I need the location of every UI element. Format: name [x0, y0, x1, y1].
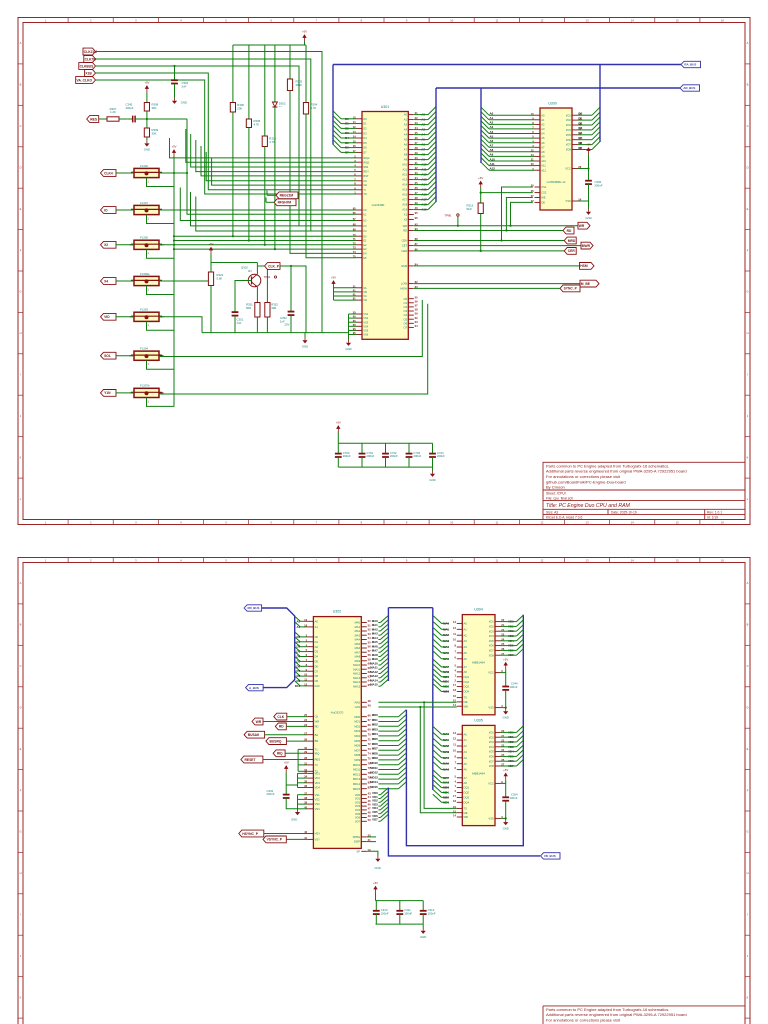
svg-text:U300: U300: [548, 102, 557, 106]
svg-text:10: 10: [450, 520, 453, 524]
svg-text:MD2: MD2: [354, 724, 360, 728]
wire RAM D: [578, 124, 593, 126]
svg-text:A7: A7: [464, 665, 468, 669]
EMI filter FL304: [130, 347, 164, 367]
wire: [290, 323, 292, 333]
bus vertical MA: [387, 608, 389, 681]
bus entry: [428, 172, 436, 180]
wire MA: [378, 656, 380, 658]
wire: [264, 45, 266, 135]
svg-text:A15: A15: [402, 188, 407, 192]
svg-text:VS1: VS1: [315, 793, 321, 797]
svg-text:I/O6: I/O6: [566, 138, 572, 142]
svg-text:T2: T2: [315, 763, 319, 767]
svg-text:I/O5: I/O5: [489, 639, 495, 643]
svg-text:H: H: [747, 331, 749, 335]
junction: [505, 707, 507, 709]
bus entry: [592, 107, 600, 115]
bus vertical D: [332, 65, 334, 145]
wire: [119, 118, 127, 120]
svg-text:13: 13: [453, 731, 456, 735]
bus entry: [295, 622, 301, 627]
wire A pin: [414, 169, 428, 171]
svg-text:C: C: [20, 664, 22, 668]
global label RESET: [241, 756, 263, 763]
bus MD loop: [406, 615, 523, 846]
wire: [505, 814, 507, 818]
bus entry: [428, 117, 436, 125]
svg-text:8: 8: [455, 754, 457, 758]
U305 vcc pin: [488, 780, 503, 786]
wire nest: [186, 129, 357, 162]
svg-text:56R: 56R: [246, 306, 251, 310]
svg-text:A7: A7: [541, 145, 545, 149]
junction: [480, 250, 482, 252]
U302 sp pin: [357, 848, 372, 854]
wire MD: [378, 769, 398, 771]
junction: [173, 239, 175, 241]
svg-text:16: 16: [453, 694, 456, 698]
svg-text:A4: A4: [464, 645, 468, 649]
svg-text:VD0: VD0: [355, 793, 361, 797]
svg-text:U305: U305: [474, 718, 483, 722]
svg-text:X1B: X1B: [85, 71, 92, 75]
svg-text:MD9: MD9: [354, 758, 360, 762]
U301 right CE pins: [401, 222, 418, 253]
svg-text:MD11: MD11: [370, 766, 378, 770]
wire vram a: [442, 646, 449, 648]
svg-text:7: 7: [316, 520, 318, 524]
bus entry: [380, 637, 388, 644]
global label VID: [101, 313, 117, 320]
svg-text:40: 40: [304, 805, 307, 809]
ground: [144, 140, 150, 151]
svg-text:+5V: +5V: [586, 143, 591, 147]
svg-text:I/O7: I/O7: [566, 143, 572, 147]
svg-text:6: 6: [455, 766, 457, 770]
wire vram a: [442, 681, 449, 683]
svg-text:10: 10: [453, 638, 456, 642]
svg-text:1: 1: [148, 363, 150, 366]
wire: [422, 924, 424, 927]
wire SS pin: [349, 313, 357, 315]
svg-text:CLK4: CLK4: [104, 171, 113, 175]
wire rail: [173, 157, 175, 407]
wire disp: [367, 841, 376, 843]
wire MD: [378, 725, 398, 727]
bus label VD_BUS: [541, 853, 561, 859]
svg-text:HuC6280: HuC6280: [372, 203, 385, 207]
svg-text:20: 20: [353, 311, 356, 315]
svg-text:12: 12: [540, 19, 543, 23]
wire HIGH: [414, 287, 560, 289]
svg-text:H: H: [747, 871, 749, 875]
svg-text:MD6: MD6: [354, 744, 360, 748]
svg-text:45: 45: [368, 799, 371, 803]
svg-text:11: 11: [495, 19, 498, 23]
wire clkp run: [280, 266, 306, 333]
U301 left E pins: [353, 233, 367, 260]
svg-text:9: 9: [406, 19, 408, 23]
wire RAM A: [489, 114, 535, 116]
wire vram d: [501, 645, 517, 647]
svg-text:KiCad E.D.A. kicad 7.0.6: KiCad E.D.A. kicad 7.0.6: [546, 516, 582, 520]
svg-text:6: 6: [455, 655, 457, 659]
wire D pin: [341, 118, 357, 120]
wire MA: [378, 664, 380, 666]
wire MA: [378, 685, 380, 687]
wire VD: [378, 820, 380, 822]
svg-text:D9: D9: [315, 679, 319, 683]
svg-text:MA14: MA14: [353, 680, 361, 684]
svg-text:J: J: [20, 954, 22, 958]
bus entry: [380, 795, 388, 802]
svg-text:74: 74: [353, 250, 356, 254]
svg-text:A5: A5: [541, 136, 545, 140]
power +5V: [144, 81, 149, 93]
bus entry: [295, 681, 301, 686]
svg-text:RD: RD: [279, 725, 284, 729]
svg-text:D0: D0: [363, 117, 367, 121]
svg-text:1: 1: [45, 559, 47, 563]
bus entry: [333, 130, 341, 138]
svg-text:52: 52: [368, 628, 371, 632]
power +5V: [503, 657, 508, 669]
svg-text:D2: D2: [296, 645, 300, 649]
svg-text:15: 15: [676, 19, 679, 23]
svg-text:12: 12: [540, 559, 543, 563]
svg-text:A3: A3: [464, 750, 468, 754]
wire bus pin: [300, 656, 308, 658]
svg-text:44: 44: [368, 795, 371, 799]
wire filter tap: [147, 321, 175, 330]
svg-text:I: I: [747, 373, 748, 377]
capacitor C306: [585, 169, 603, 197]
bus entry: [433, 627, 442, 635]
wire FL306 out: [159, 281, 211, 333]
svg-text:GND: GND: [302, 344, 308, 348]
svg-text:37: 37: [304, 791, 307, 795]
wire RAM A: [489, 151, 535, 153]
bus entry: [433, 738, 442, 746]
svg-text:MA5: MA5: [355, 642, 361, 646]
wire A pin: [414, 164, 428, 166]
U301 right xtal pins: [404, 211, 418, 222]
svg-text:MA8: MA8: [355, 655, 361, 659]
svg-text:A: A: [20, 581, 22, 585]
svg-text:O6: O6: [404, 321, 408, 325]
svg-text:VD1: VD1: [315, 772, 321, 776]
bus entry: [428, 112, 436, 120]
test point TP80: [445, 214, 460, 218]
wire vcc: [501, 780, 506, 784]
svg-text:MD10: MD10: [370, 761, 378, 765]
svg-text:48: 48: [368, 810, 371, 814]
U302 right VD pins: [355, 791, 371, 823]
junction: [505, 229, 507, 231]
svg-text:70: 70: [353, 233, 356, 237]
svg-text:71: 71: [353, 237, 356, 241]
wire R304 to U301: [306, 116, 357, 258]
svg-text:MRD: MRD: [568, 239, 576, 243]
bus entry: [398, 767, 406, 774]
svg-text:A11: A11: [403, 168, 408, 172]
wire MA: [378, 651, 380, 653]
wire vram d: [501, 630, 517, 632]
capacitor C701: [359, 443, 375, 467]
wire vram a: [442, 640, 449, 642]
bus entry: [428, 182, 436, 190]
global label M_BE: [580, 280, 599, 287]
svg-text:G: G: [19, 830, 21, 834]
svg-text:9: 9: [406, 559, 408, 563]
U302 left A pins: [296, 618, 318, 629]
bus entry: [295, 671, 301, 676]
ground: [503, 819, 509, 830]
global label SOL: [101, 352, 117, 359]
wire: [289, 45, 291, 78]
svg-text:I/O4: I/O4: [566, 128, 572, 132]
svg-text:VS6: VS6: [363, 333, 369, 337]
svg-text:200nF: 200nF: [343, 454, 351, 458]
power +5V: [208, 242, 213, 254]
wire: [348, 314, 350, 340]
wire vram d: [501, 736, 517, 738]
wire A pin: [414, 134, 428, 136]
wire filter tap: [147, 360, 175, 369]
wire bus pin: [300, 626, 308, 628]
svg-text:TP54: TP54: [264, 275, 271, 279]
svg-text:+5V: +5V: [373, 881, 378, 885]
wire MA: [378, 643, 380, 645]
resistor R313: [467, 202, 484, 216]
power +5V: [284, 761, 289, 773]
svg-text:33: 33: [304, 770, 307, 774]
bus entry: [428, 177, 436, 185]
bus entry: [592, 137, 600, 145]
svg-text:MD11: MD11: [353, 768, 360, 772]
svg-text:MD1: MD1: [372, 718, 378, 722]
wire bus pin: [300, 665, 308, 667]
bus entry: [333, 125, 341, 133]
svg-text:O4: O4: [404, 313, 408, 317]
svg-text:X4: X4: [104, 279, 108, 283]
wire: [266, 191, 268, 196]
wire: [146, 139, 148, 141]
svg-text:E1: E1: [363, 239, 367, 243]
svg-text:5: 5: [225, 19, 227, 23]
bus entry: [333, 111, 341, 119]
svg-text:12: 12: [453, 626, 456, 630]
wire vram a: [442, 628, 449, 630]
bus entry: [517, 740, 524, 747]
svg-text:2nF: 2nF: [182, 84, 187, 88]
wire MD: [378, 730, 398, 732]
bus entry: [592, 117, 600, 125]
wire A pin: [414, 209, 428, 211]
bus entry: [333, 140, 341, 148]
svg-text:A17: A17: [402, 198, 407, 202]
svg-text:HuC6270: HuC6270: [331, 711, 344, 715]
ground: [302, 337, 308, 348]
svg-text:50: 50: [368, 619, 371, 623]
svg-text:MD15: MD15: [370, 785, 378, 789]
bus entry: [333, 120, 341, 128]
global label HSYNC_P: [239, 830, 264, 837]
capacitor C302: [267, 789, 290, 802]
svg-text:MA6: MA6: [355, 646, 361, 650]
svg-text:X2: X2: [404, 218, 408, 222]
wire: [210, 287, 212, 333]
svg-text:20K: 20K: [237, 106, 242, 110]
wire RAM A: [489, 133, 535, 135]
svg-text:11: 11: [453, 743, 456, 747]
svg-text:13: 13: [586, 559, 589, 563]
svg-text:4: 4: [180, 19, 182, 23]
bus vertical MA right: [432, 608, 434, 790]
bus entry: [398, 748, 406, 755]
wire: [99, 118, 107, 120]
U301 left K pins: [353, 207, 367, 234]
svg-text:IRQ: IRQ: [277, 752, 283, 756]
svg-text:A14: A14: [402, 183, 407, 187]
svg-text:I/O6: I/O6: [489, 644, 495, 648]
svg-text:1: 1: [455, 784, 457, 788]
U304 right pins: [489, 618, 514, 657]
svg-text:DISP: DISP: [354, 840, 360, 844]
resistor R351: [246, 301, 260, 319]
U305 ctl pins: [453, 805, 468, 819]
bus entry: [481, 112, 489, 120]
wire label to filter: [116, 209, 134, 211]
svg-text:FL302: FL302: [140, 164, 148, 168]
wire filter tap: [147, 178, 175, 187]
svg-text:GND: GND: [181, 100, 187, 104]
wire MD: [378, 783, 398, 785]
svg-text:HIGH: HIGH: [400, 287, 407, 291]
svg-text:SPBG: SPBG: [353, 835, 360, 839]
svg-text:VS3: VS3: [363, 320, 369, 324]
U300 vcc pin: [565, 165, 582, 171]
bus entry: [433, 659, 442, 667]
svg-text:MA15: MA15: [370, 683, 378, 687]
svg-text:VS5: VS5: [363, 329, 369, 333]
global label X4: [101, 278, 117, 285]
junction: [173, 65, 175, 67]
svg-text:A3: A3: [541, 127, 545, 131]
svg-text:DQ2: DQ2: [464, 680, 470, 684]
svg-text:I/O8: I/O8: [489, 764, 495, 768]
svg-text:BUSRQ: BUSRQ: [270, 739, 282, 743]
svg-text:RES: RES: [90, 117, 98, 121]
svg-text:CER: CER: [568, 249, 576, 253]
svg-text:B: B: [20, 623, 22, 627]
svg-text:A9: A9: [404, 158, 408, 162]
svg-text:2: 2: [90, 520, 92, 524]
svg-text:A9: A9: [541, 155, 545, 159]
svg-text:RAS: RAS: [355, 700, 361, 704]
diode D302: [272, 45, 285, 110]
svg-text:ME: ME: [464, 700, 468, 704]
svg-text:57: 57: [415, 304, 418, 308]
svg-text:1: 1: [45, 19, 47, 23]
bus entry: [433, 732, 442, 740]
wire filter tap: [147, 286, 175, 295]
svg-text:K: K: [20, 455, 22, 459]
bus entry: [517, 625, 524, 632]
bus entry: [295, 642, 301, 647]
svg-text:+5V: +5V: [171, 145, 176, 149]
wire RAM D: [578, 119, 593, 121]
svg-text:TS: TS: [464, 696, 468, 700]
junction: [457, 225, 459, 227]
svg-text:C: C: [20, 124, 22, 128]
svg-text:T1: T1: [315, 748, 319, 752]
svg-text:28: 28: [304, 756, 307, 760]
bus entry: [295, 666, 301, 671]
svg-text:MA7: MA7: [355, 650, 361, 654]
svg-text:RD: RD: [403, 229, 407, 233]
svg-text:15: 15: [453, 809, 456, 813]
net labels U302 right: [370, 619, 378, 822]
wire reset: [263, 759, 308, 761]
wire A pin: [414, 204, 428, 206]
svg-text:FL307b: FL307b: [140, 384, 150, 388]
bus entry: [295, 652, 301, 657]
svg-text:41: 41: [353, 289, 356, 293]
wire: [505, 704, 507, 708]
wire vram d: [501, 625, 517, 627]
svg-text:Parts common to PC Engine adap: Parts common to PC Engine adapted from T…: [546, 463, 669, 468]
wire MA: [378, 668, 380, 670]
svg-text:MD4: MD4: [354, 734, 360, 738]
svg-text:8: 8: [455, 644, 457, 648]
svg-text:MB81464: MB81464: [472, 771, 485, 775]
svg-text:D6: D6: [363, 146, 367, 150]
svg-text:HSY: HSY: [315, 832, 321, 836]
svg-text:DQ3: DQ3: [464, 685, 470, 689]
wire label to filter: [116, 316, 134, 318]
wire RAM A: [489, 123, 535, 125]
wire label to filter: [116, 392, 134, 394]
IC U301: [362, 105, 408, 339]
svg-text:1.2K: 1.2K: [110, 110, 116, 114]
bus entry: [380, 811, 388, 818]
wire VD: [378, 817, 380, 819]
svg-text:9: 9: [406, 520, 408, 524]
wire A pin: [414, 154, 428, 156]
wire X node to U301: [187, 119, 357, 214]
wire CS1: [502, 187, 533, 241]
U302 sync pins: [304, 830, 320, 841]
svg-text:D3: D3: [363, 131, 367, 135]
svg-text:VD7: VD7: [372, 818, 378, 822]
wire D pin: [341, 142, 357, 144]
U305 left pins: [443, 731, 470, 805]
junction: [173, 248, 175, 250]
U300 ctrl pins: [531, 184, 547, 205]
wire bus pin: [300, 670, 308, 672]
bus entry: [295, 647, 301, 652]
wire: [457, 216, 459, 226]
svg-text:4.7K: 4.7K: [311, 106, 317, 110]
bus entry: [295, 656, 301, 661]
svg-text:VSS: VSS: [565, 199, 571, 203]
bus entry: [428, 157, 436, 165]
wire cap rail top: [338, 442, 432, 444]
svg-text:U301: U301: [381, 105, 390, 109]
svg-text:80: 80: [353, 323, 356, 327]
